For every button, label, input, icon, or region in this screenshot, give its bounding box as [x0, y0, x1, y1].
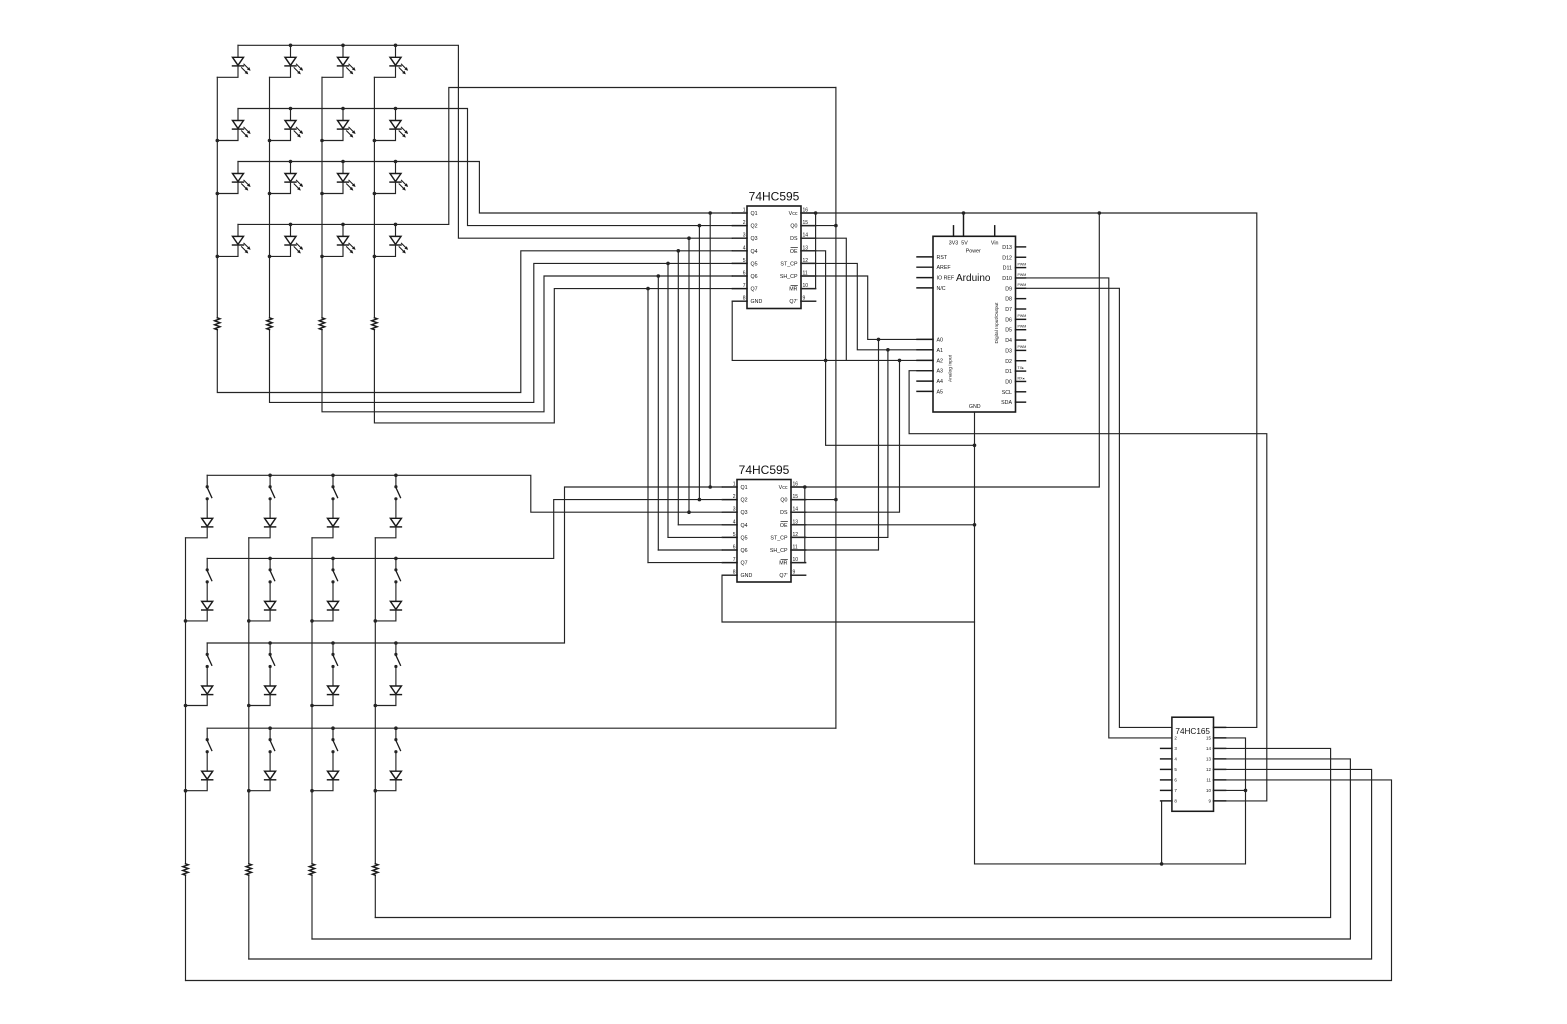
svg-text:A1: A1 [937, 348, 944, 354]
LED D8 (row 2, col 4) [374, 109, 408, 141]
LED D6 (row 2, col 2) [270, 109, 304, 141]
svg-text:6: 6 [743, 271, 746, 277]
LED D7 (row 2, col 3) [322, 109, 356, 141]
svg-text:A2: A2 [937, 358, 944, 364]
svg-text:Q3: Q3 [751, 236, 758, 242]
switch S16 with diode (row 4, col 4) [375, 728, 401, 791]
wire LED row 2 to 74HC595 U1 pin 2 [238, 109, 732, 226]
resistor R2 [267, 318, 272, 330]
svg-text:Q1: Q1 [751, 211, 758, 217]
svg-text:D5: D5 [1005, 328, 1012, 334]
svg-text:Q7: Q7 [741, 561, 748, 567]
resistor R4 [372, 318, 377, 330]
wire Arduino D10 to 74HC165 pin 2 (clock) [1026, 278, 1172, 738]
switch S12 with diode (row 3, col 4) [375, 643, 401, 706]
svg-text:Analog Input: Analog Input [948, 354, 954, 382]
switch S1 with diode (row 1, col 1) [186, 475, 213, 538]
junctions on LED row wires [289, 44, 398, 227]
svg-text:IO REF: IO REF [937, 276, 955, 282]
svg-text:D7: D7 [1005, 307, 1012, 313]
svg-text:11: 11 [1206, 778, 1211, 783]
LED D11 (row 3, col 3) [322, 162, 356, 194]
svg-text:ST_CP: ST_CP [770, 535, 788, 541]
svg-text:3V3: 3V3 [949, 241, 958, 247]
svg-text:Vcc: Vcc [779, 485, 788, 491]
resistor R5 [183, 864, 188, 875]
svg-text:DS: DS [780, 510, 788, 516]
LED D5 (row 2, col 1) [217, 109, 250, 141]
wire switch column 3 [311, 538, 313, 939]
svg-text:Q2: Q2 [741, 498, 748, 504]
wire U1 SH_CP to Arduino A0 [801, 276, 933, 341]
svg-text:RST: RST [937, 255, 948, 261]
switch S13 with diode (row 4, col 1) [186, 728, 213, 791]
svg-text:D11: D11 [1003, 266, 1012, 272]
LED D9 (row 3, col 1) [217, 162, 250, 194]
svg-text:PWM: PWM [1018, 314, 1027, 318]
svg-text:A5: A5 [937, 389, 944, 395]
svg-text:D12: D12 [1002, 255, 1012, 261]
switch S14 with diode (row 4, col 2) [249, 728, 276, 791]
svg-text:PWM: PWM [1018, 273, 1027, 277]
LED D14 (row 4, col 2) [270, 224, 304, 256]
LED D16 (row 4, col 4) [374, 224, 408, 256]
junctions on LED column 2 [268, 139, 272, 258]
switch S15 with diode (row 4, col 3) [312, 728, 339, 791]
svg-text:4: 4 [743, 245, 746, 251]
switch S4 with diode (row 1, col 4) [375, 475, 401, 538]
wire U4 pin 10 to ground riser [1214, 789, 1246, 791]
svg-text:Arduino: Arduino [956, 273, 991, 284]
wire U2 ST_CP to A1 net [791, 350, 888, 538]
svg-text:Q6: Q6 [751, 274, 758, 280]
svg-text:2: 2 [743, 220, 746, 226]
wire U1 GND / Arduino A2 / DS row [732, 301, 933, 362]
wire switch row 2 to U2 pin 2 [207, 500, 722, 559]
svg-text:ST_CP: ST_CP [780, 261, 798, 267]
svg-text:SH_CP: SH_CP [780, 274, 798, 280]
Arduino left pins RST/AREF/IO REF/N.C./A0-A5 [917, 255, 955, 396]
IC shift register U4 74HC165 body [1172, 717, 1214, 811]
svg-text:3: 3 [733, 507, 736, 513]
wire switch column 4 [374, 538, 376, 918]
svg-text:10: 10 [1206, 788, 1212, 793]
svg-text:D9: D9 [1005, 286, 1012, 292]
Arduino 5V pin to Vcc rail [961, 211, 968, 246]
junction Vcc/MR [814, 211, 818, 215]
svg-text:D4: D4 [1005, 338, 1012, 344]
svg-text:5: 5 [743, 258, 746, 264]
svg-text:6: 6 [733, 545, 736, 551]
wire U1 Q7' stub [801, 300, 816, 302]
svg-text:Q0: Q0 [790, 224, 797, 230]
resistor R6 [246, 864, 251, 875]
svg-text:Q7': Q7' [779, 573, 787, 579]
junctions on switch column 1 [184, 619, 188, 792]
svg-text:Q2: Q2 [751, 224, 758, 230]
svg-text:12: 12 [1206, 767, 1212, 772]
svg-text:D1: D1 [1005, 369, 1012, 375]
wire LED row 1 to 74HC595 U1 pin 3 [238, 45, 732, 238]
U2 74HC595 pins, pin numbers and labels [722, 482, 805, 580]
switch S6 with diode (row 2, col 2) [249, 558, 276, 621]
wire U1 Q0 to Q0 bus [801, 224, 838, 228]
svg-text:7: 7 [743, 283, 746, 289]
svg-text:Q4: Q4 [741, 523, 748, 529]
LED D2 (row 1, col 2) [270, 45, 304, 77]
svg-text:Q3: Q3 [741, 510, 748, 516]
wire Vcc rail from U1 pin16 to 74HC165 pin16 [801, 213, 1257, 727]
wire U1 ST_CP to Arduino A1 [801, 263, 933, 351]
switch S10 with diode (row 3, col 2) [249, 643, 276, 706]
svg-text:RX◂: RX◂ [1018, 376, 1025, 380]
Arduino board U3 body [933, 236, 1016, 412]
svg-text:GND: GND [741, 573, 753, 579]
svg-text:GND: GND [751, 299, 763, 305]
LED D13 (row 4, col 1) [217, 224, 250, 256]
wire switch row 3 to U2 pin 1 [207, 487, 722, 643]
LED D10 (row 3, col 2) [270, 162, 304, 194]
wire switch row 4 to Q0 bus [207, 727, 836, 729]
svg-text:Vin: Vin [991, 241, 999, 247]
wire U2 GND to ground net [722, 575, 975, 622]
wire U1 DS from Arduino A2 net [801, 238, 846, 360]
wire U2 Q7' stub [791, 574, 806, 576]
svg-text:MR: MR [789, 287, 797, 293]
svg-text:Q6: Q6 [741, 548, 748, 554]
svg-text:SCL: SCL [1002, 390, 1012, 396]
svg-text:PWM: PWM [1018, 262, 1027, 266]
switch S9 with diode (row 3, col 1) [186, 643, 213, 706]
Arduino right pins D13-D0, SCL, SDA [1001, 245, 1026, 406]
wire U2 SH_CP to A0 net [791, 339, 879, 550]
resistor R7 [309, 864, 314, 875]
svg-text:13: 13 [1206, 757, 1212, 762]
junctions on LED column 4 [373, 139, 377, 258]
svg-text:PWM: PWM [1018, 283, 1027, 287]
op-amp/IC shift register U1 74HC595 body [747, 190, 801, 309]
svg-text:MR: MR [779, 561, 787, 567]
wire LED row 3 to 74HC595 U1 pin 1 [238, 162, 732, 214]
wire U2 MR tie-high [791, 487, 805, 563]
svg-text:Q4: Q4 [751, 249, 758, 255]
svg-text:Power: Power [966, 249, 981, 255]
LED D12 (row 3, col 4) [374, 162, 408, 194]
svg-text:3: 3 [743, 233, 746, 239]
wire LED column 1 (cathode column) [217, 77, 732, 392]
LED D1 (row 1, col 1) [217, 45, 250, 77]
switch S2 with diode (row 1, col 2) [249, 475, 276, 538]
junctions on Q bus at U1 and U2 pins [646, 211, 712, 514]
wire Q0 vertical bus (LED row4 / U1 Q0 / U2 Q0 / switch row4) [835, 88, 837, 729]
wire U4 pin 12 to switch column 2 [249, 769, 1372, 959]
wire LED column 3 (cathode column) [322, 77, 732, 412]
svg-text:N/C: N/C [937, 286, 946, 292]
wire Arduino D9 to 74HC165 pin 1 (latch) [1026, 288, 1172, 727]
svg-text:TX▸: TX▸ [1018, 366, 1025, 370]
wire U4 pin 14 to switch column 4 [375, 748, 1330, 917]
IC shift register U2 74HC595 body [737, 463, 791, 582]
svg-text:D0: D0 [1005, 379, 1012, 385]
svg-text:7: 7 [733, 557, 736, 563]
wire U2 Vcc rail across to Vcc bridge [791, 211, 1101, 489]
svg-text:8: 8 [743, 296, 746, 302]
wire U4 pin 8 GND to ground rail [1160, 801, 1172, 866]
wire U2 pins 4-7 from Q bus [648, 525, 722, 563]
svg-text:74HC165: 74HC165 [1175, 727, 1210, 736]
svg-text:A0: A0 [937, 337, 944, 343]
LED D4 (row 1, col 4) [374, 45, 408, 77]
svg-text:Digital Input/Output: Digital Input/Output [994, 302, 1000, 344]
svg-text:Q7: Q7 [751, 287, 758, 293]
wire U2 OE to ground vertical [791, 523, 976, 527]
wire U2 DS to A2 net [791, 360, 900, 512]
svg-text:1: 1 [733, 482, 736, 488]
wire U1 OE to ground net [801, 251, 976, 447]
junctions on switch column 2 [247, 619, 251, 792]
svg-text:PWM: PWM [1018, 345, 1027, 349]
resistor R1 [215, 318, 220, 330]
switch S7 with diode (row 2, col 3) [312, 558, 339, 621]
LED D3 (row 1, col 3) [322, 45, 356, 77]
svg-text:OE: OE [790, 249, 798, 255]
svg-text:AREF: AREF [937, 265, 952, 271]
wire Arduino A3 to 74HC165 pin 9 (QH data) [909, 371, 1267, 801]
svg-text:2: 2 [733, 494, 736, 500]
svg-text:GND: GND [969, 404, 981, 410]
svg-text:D2: D2 [1005, 359, 1012, 365]
svg-text:14: 14 [1206, 746, 1212, 751]
svg-text:D10: D10 [1002, 276, 1012, 282]
wire U1 MR tie-high to Vcc [801, 213, 816, 289]
svg-text:A4: A4 [937, 379, 944, 385]
svg-text:Q1: Q1 [741, 485, 748, 491]
svg-text:DS: DS [790, 236, 798, 242]
svg-text:5: 5 [733, 532, 736, 538]
switch S3 with diode (row 1, col 3) [312, 475, 339, 538]
wire LED column 2 (cathode column) [270, 77, 733, 402]
wire LED row 4 up and over to Q0 bus [238, 88, 836, 225]
wire LED column 4 (cathode column) [374, 77, 732, 423]
junctions on switch column 3 [310, 619, 314, 792]
wire U4 pin 11 to switch column 1 [186, 780, 1392, 981]
switch S5 with diode (row 2, col 1) [186, 558, 213, 621]
svg-text:SH_CP: SH_CP [770, 548, 788, 554]
junctions on LED column 1 [216, 139, 220, 258]
svg-text:Vcc: Vcc [789, 211, 798, 217]
svg-text:D8: D8 [1005, 297, 1012, 303]
wire U2 Q0 to Q0 bus [791, 498, 838, 502]
svg-text:Q7': Q7' [789, 299, 797, 305]
svg-text:A3: A3 [937, 369, 944, 375]
svg-text:8: 8 [733, 570, 736, 576]
svg-text:D13: D13 [1002, 245, 1012, 251]
wire U4 pin 13 to switch column 3 [312, 759, 1350, 939]
junctions on switch row wires [268, 474, 397, 731]
wire Arduino GND down to ground rail and 74HC165 pin 15 [975, 412, 1248, 864]
svg-text:5V: 5V [961, 241, 968, 247]
svg-text:Q0: Q0 [780, 498, 787, 504]
svg-text:4: 4 [733, 519, 736, 525]
switch S8 with diode (row 2, col 4) [375, 558, 401, 621]
svg-text:15: 15 [1206, 736, 1212, 741]
svg-text:Q5: Q5 [741, 535, 748, 541]
junctions on switch column 4 [374, 619, 378, 792]
resistor R3 [319, 318, 324, 330]
svg-text:Q5: Q5 [751, 261, 758, 267]
U1 74HC595 pins, pin numbers and labels [732, 208, 815, 306]
LED D15 (row 4, col 3) [322, 224, 356, 256]
resistor R8 [373, 864, 378, 875]
svg-text:OE: OE [780, 523, 788, 529]
svg-text:D3: D3 [1005, 348, 1012, 354]
wire Q1-Q7 bus verticals linking U1 and U2 outputs [648, 213, 710, 563]
Arduino 3V3 pin stub [949, 226, 958, 247]
wire switch column 2 [248, 538, 250, 959]
wire switch row 1 to U2 pin 3 [207, 475, 722, 512]
svg-text:1: 1 [743, 208, 746, 214]
svg-text:SDA: SDA [1001, 400, 1012, 406]
svg-text:74HC595: 74HC595 [739, 463, 790, 477]
junctions on LED column 3 [320, 139, 324, 258]
svg-text:PWM: PWM [1018, 325, 1027, 329]
switch S11 with diode (row 3, col 3) [312, 643, 339, 706]
svg-text:D6: D6 [1005, 317, 1012, 323]
svg-text:74HC595: 74HC595 [749, 190, 800, 204]
Arduino Vin pin stub [991, 226, 999, 247]
wire switch column 1 [185, 538, 187, 981]
U4 74HC165 pins and pin numbers [1161, 727, 1226, 803]
